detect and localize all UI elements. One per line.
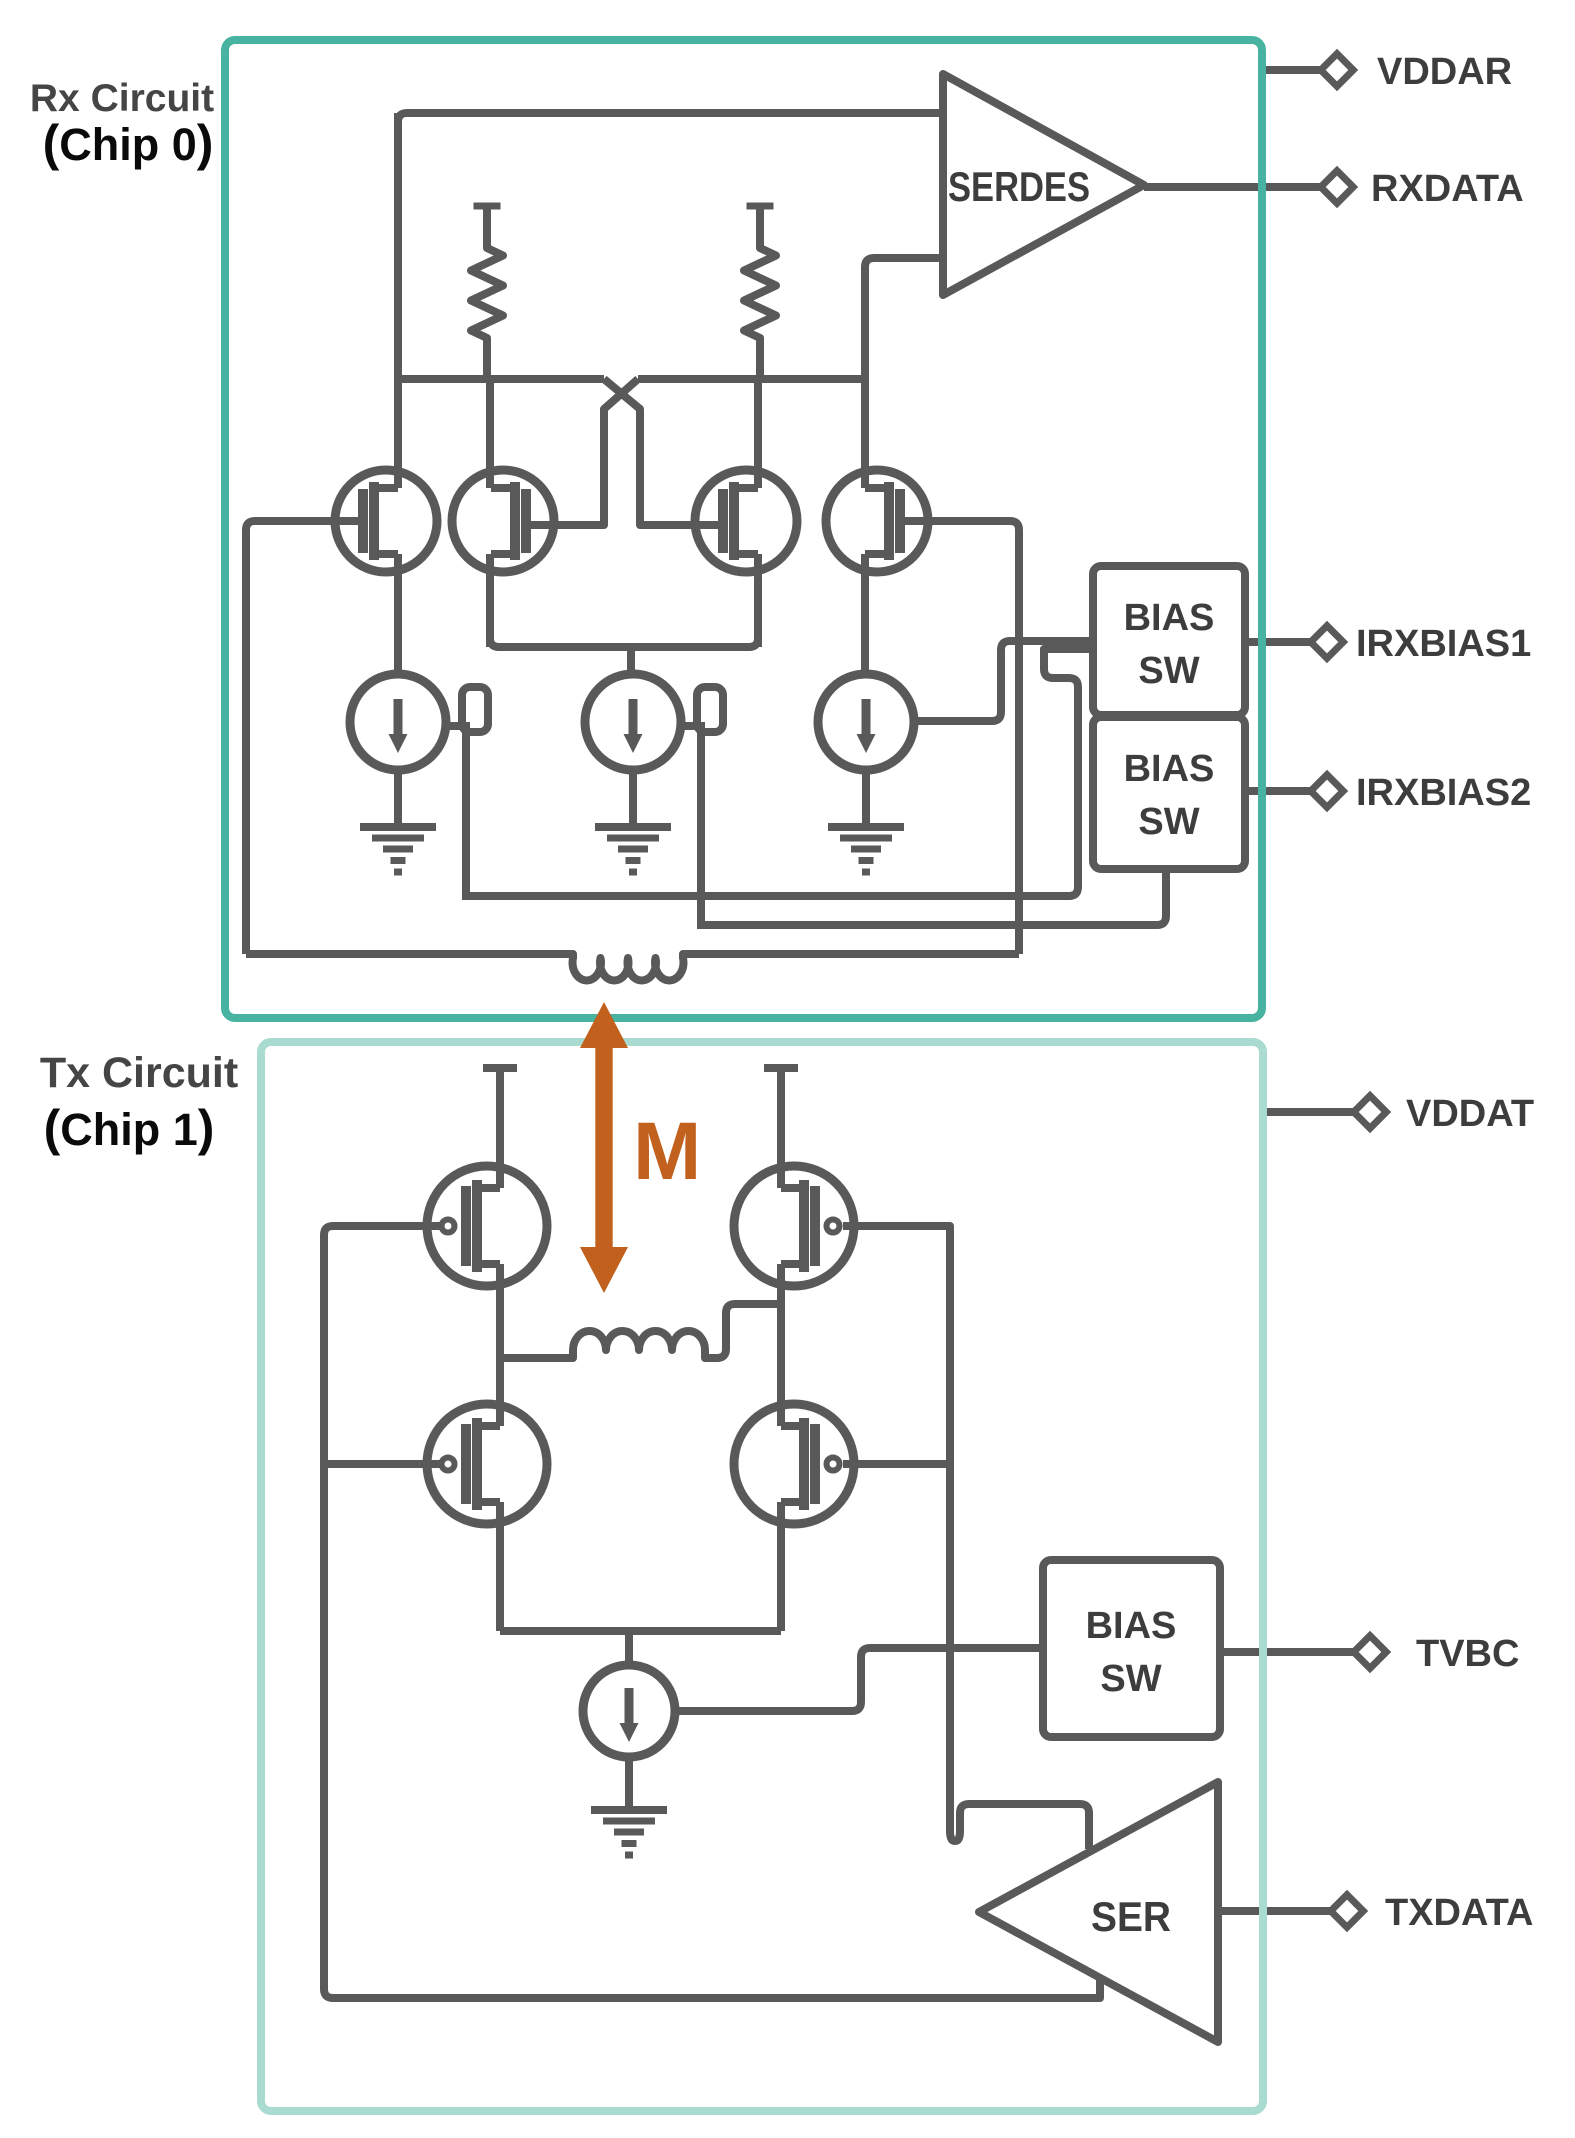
svg-text:(Chip 0): (Chip 0) — [43, 115, 214, 171]
svg-text:TVBC: TVBC — [1416, 1633, 1519, 1675]
svg-text:VDDAR: VDDAR — [1377, 51, 1512, 93]
svg-text:(Chip 1): (Chip 1) — [44, 1100, 215, 1156]
svg-text:SW: SW — [1138, 801, 1199, 843]
svg-text:IRXBIAS1: IRXBIAS1 — [1356, 623, 1531, 665]
svg-text:BIAS: BIAS — [1124, 597, 1215, 639]
svg-text:BIAS: BIAS — [1086, 1605, 1177, 1647]
svg-text:VDDAT: VDDAT — [1406, 1093, 1534, 1135]
svg-text:SW: SW — [1100, 1658, 1161, 1700]
svg-text:TXDATA: TXDATA — [1385, 1892, 1533, 1934]
svg-text:Rx Circuit: Rx Circuit — [30, 77, 214, 120]
svg-text:M: M — [633, 1106, 701, 1197]
svg-text:RXDATA: RXDATA — [1371, 168, 1524, 210]
svg-text:SW: SW — [1138, 650, 1199, 692]
svg-text:IRXBIAS2: IRXBIAS2 — [1356, 772, 1531, 814]
svg-text:SER: SER — [1091, 1893, 1171, 1940]
svg-text:Tx Circuit: Tx Circuit — [40, 1049, 238, 1097]
svg-text:SERDES: SERDES — [948, 163, 1090, 210]
svg-text:BIAS: BIAS — [1124, 748, 1215, 790]
